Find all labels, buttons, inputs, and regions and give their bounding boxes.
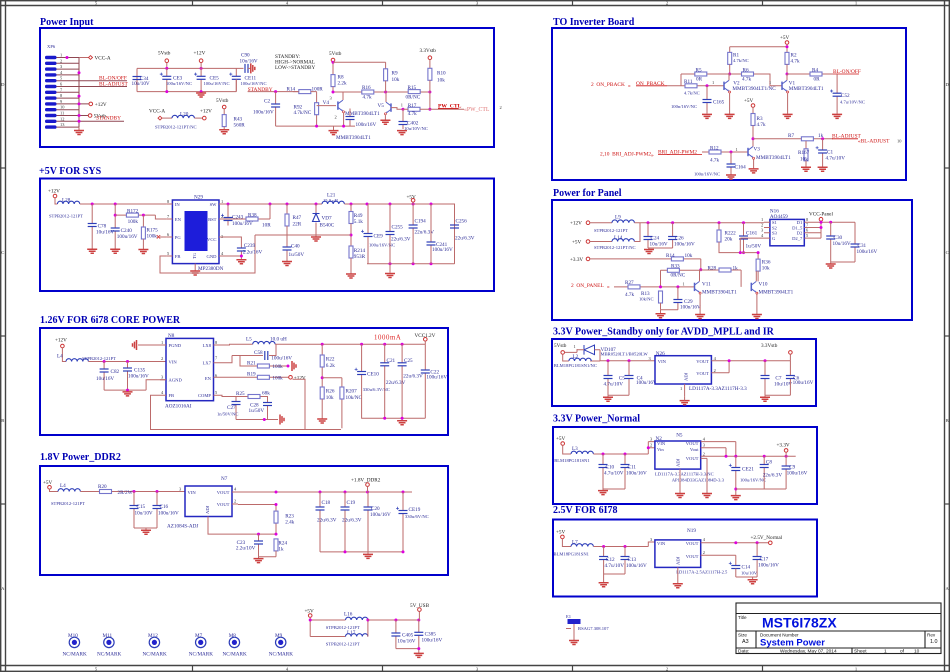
caps bottom rail + ground <box>362 418 426 420</box>
svg-text:LD1117A-3.3AZ1117H-3.3: LD1117A-3.3AZ1117H-3.3 <box>689 386 747 392</box>
svg-text:100k: 100k <box>272 375 283 381</box>
svg-text:EN: EN <box>205 376 212 381</box>
svg-text:2 ON_PANEL: 2 ON_PANEL <box>571 283 604 289</box>
svg-text:R19: R19 <box>247 372 256 378</box>
svg-text:VIN: VIN <box>169 359 178 364</box>
rail collector row <box>293 91 430 93</box>
resistor R21 <box>240 356 288 367</box>
caps bottom rail + ground <box>137 79 236 92</box>
ground C12/C13 <box>604 574 625 582</box>
svg-text:2R/2W: 2R/2W <box>118 490 133 496</box>
svg-text:3.3Vstb: 3.3Vstb <box>420 48 437 54</box>
svg-text:+3.3V: +3.3V <box>570 257 583 263</box>
svg-text:4.7u/10V: 4.7u/10V <box>605 563 625 569</box>
svg-text:N7: N7 <box>221 476 228 482</box>
svg-text:VOUT: VOUT <box>217 490 230 495</box>
capacitor C7 <box>764 361 766 395</box>
svg-text:1: 1 <box>884 649 887 655</box>
ground PGND (rotated) <box>138 344 160 346</box>
svg-text:4.7k: 4.7k <box>757 122 766 128</box>
svg-text:»: » <box>607 284 610 290</box>
resistor R7 <box>801 137 813 141</box>
svg-text:2: 2 <box>761 222 763 227</box>
svg-text:NC/MARK: NC/MARK <box>189 651 213 657</box>
svg-text:100u/16V: 100u/16V <box>253 110 274 116</box>
svg-text:V3: V3 <box>754 146 761 152</box>
ground C90 (rotated) <box>248 67 250 69</box>
svg-text:100u/16V: 100u/16V <box>422 638 443 644</box>
svg-text:4.7k: 4.7k <box>791 59 800 65</box>
ADJ grounds <box>680 458 707 493</box>
svg-text:Size: Size <box>738 633 747 638</box>
section box 1.26V <box>40 328 448 435</box>
svg-text:100k: 100k <box>147 234 158 240</box>
svg-text:+12V: +12V <box>570 221 582 227</box>
svg-text:R7: R7 <box>788 133 794 139</box>
svg-text:+5V: +5V <box>556 529 566 535</box>
svg-text:MP2380DN: MP2380DN <box>198 266 224 272</box>
svg-text:5.1k: 5.1k <box>354 219 363 225</box>
svg-text:100u/16V: 100u/16V <box>232 221 253 227</box>
svg-text:PG: PG <box>175 235 182 240</box>
svg-text:R6: R6 <box>743 68 749 74</box>
svg-text:ADJ: ADJ <box>205 505 210 514</box>
svg-text:C27: C27 <box>227 405 236 411</box>
transistor V4 <box>338 100 345 113</box>
svg-text:N19: N19 <box>687 528 696 534</box>
svg-text:C11: C11 <box>628 465 637 471</box>
svg-text:4.7k/NC: 4.7k/NC <box>684 91 700 96</box>
capacitor C402 <box>402 109 404 129</box>
svg-text:100n/16V: 100n/16V <box>356 122 377 128</box>
ground C30/C31 <box>831 262 855 264</box>
capacitor C26 <box>672 223 674 248</box>
svg-text:AOZ1016AI: AOZ1016AI <box>165 404 192 410</box>
svg-text:GND: GND <box>207 254 218 259</box>
ground C24/C26 <box>648 248 673 249</box>
svg-text:100u/16V/NC: 100u/16V/NC <box>204 81 230 86</box>
ground output rail <box>389 264 391 273</box>
svg-text:3.3V Power_Standby only for AV: 3.3V Power_Standby only for AVDD_MPLL an… <box>553 327 775 338</box>
capacitor C161 <box>743 223 745 253</box>
capacitor C40 <box>286 226 288 261</box>
svg-text:0R: 0R <box>696 77 703 83</box>
resistor R14 (panel) <box>671 257 683 261</box>
svg-text:R11: R11 <box>684 79 693 85</box>
svg-text:3.3V Power_Normal: 3.3V Power_Normal <box>553 414 640 425</box>
VOUT wires <box>711 361 790 373</box>
svg-text:1k: 1k <box>278 546 284 552</box>
svg-text:R167: R167 <box>798 150 810 156</box>
resistor R4 <box>787 73 833 75</box>
svg-text:+5V: +5V <box>744 98 754 104</box>
svg-text:VOUT: VOUT <box>686 456 699 461</box>
svg-text:5Vstb: 5Vstb <box>329 51 342 57</box>
svg-text:R207: R207 <box>346 389 358 395</box>
svg-text:C13: C13 <box>628 557 637 563</box>
svg-text:100k: 100k <box>272 364 283 370</box>
svg-text:EN: EN <box>175 217 182 222</box>
svg-text:VOUT: VOUT <box>696 359 709 364</box>
svg-text:VOUT: VOUT <box>696 371 709 376</box>
svg-text:ADJ: ADJ <box>676 458 681 467</box>
resistor R26 <box>320 387 324 399</box>
svg-text:C255: C255 <box>392 225 404 231</box>
svg-text:100n/16V/NC: 100n/16V/NC <box>694 172 720 177</box>
svg-text:+1.8V_DDR2: +1.8V_DDR2 <box>351 478 381 484</box>
svg-text:11: 11 <box>60 111 64 116</box>
svg-text:5Vstb: 5Vstb <box>554 343 567 349</box>
svg-text:10k: 10k <box>685 253 693 259</box>
svg-text:VIN: VIN <box>657 541 666 546</box>
svg-text:R33: R33 <box>671 264 680 270</box>
svg-text:LX8: LX8 <box>203 343 212 348</box>
section box 3.3V standby <box>552 339 816 406</box>
svg-text:4.7k: 4.7k <box>408 111 417 117</box>
svg-text:R47: R47 <box>293 215 302 221</box>
capacitor near V5 base <box>349 109 351 127</box>
svg-text:Vout: Vout <box>690 447 699 452</box>
resistor R5 <box>681 74 730 86</box>
svg-text:100u/16V: 100u/16V <box>857 249 878 255</box>
wire LX8 to L5 <box>220 344 253 363</box>
svg-text:100u/16V: 100u/16V <box>128 374 149 380</box>
svg-text:C2: C2 <box>264 98 270 104</box>
resistor R19 <box>220 376 289 378</box>
svg-text:VIN: VIN <box>658 359 667 364</box>
svg-text:4.7u/10V/NC: 4.7u/10V/NC <box>840 100 865 105</box>
capacitor C165 <box>706 84 709 87</box>
svg-text:»: » <box>651 153 654 159</box>
svg-text:10k/NC: 10k/NC <box>639 297 654 302</box>
svg-text:RSAG7.308.107: RSAG7.308.107 <box>578 626 609 631</box>
terminal +12V pin9 <box>89 102 93 106</box>
svg-text:2.2u/16V: 2.2u/16V <box>243 250 263 256</box>
output rail <box>344 204 454 264</box>
svg-text:100u/16V: 100u/16V <box>787 471 808 477</box>
svg-text:L16: L16 <box>344 612 353 618</box>
capacitor C239 <box>225 237 241 260</box>
rail to VIN <box>593 542 654 547</box>
svg-text:10: 10 <box>914 649 920 655</box>
svg-text:R22: R22 <box>326 357 335 363</box>
capacitor C30 <box>830 222 832 262</box>
svg-text:0R: 0R <box>814 77 821 83</box>
svg-text:STPB2012-121PT/NC: STPB2012-121PT/NC <box>594 245 636 250</box>
svg-text:C18: C18 <box>322 500 331 506</box>
capacitor C82 <box>103 362 105 391</box>
rail to VIN <box>593 442 654 454</box>
svg-text:AZ1084S-ADJ: AZ1084S-ADJ <box>167 524 198 530</box>
capacitor C8 <box>763 456 765 489</box>
VOUT wires <box>701 442 796 457</box>
svg-text:100u/16V: 100u/16V <box>626 563 647 569</box>
gate wire to R36 <box>740 238 764 259</box>
svg-text:V5: V5 <box>378 103 385 109</box>
resistor R20 <box>80 491 185 493</box>
svg-text:2.2u/10V: 2.2u/10V <box>236 545 256 551</box>
resistor R24 <box>274 539 278 551</box>
wire 5Vstb over to R9 <box>333 62 386 69</box>
svg-text:Date:: Date: <box>738 649 749 655</box>
svg-text:R5: R5 <box>696 68 702 74</box>
ground bottom rail <box>333 126 335 130</box>
svg-text:CE21: CE21 <box>742 466 754 472</box>
svg-text:VIN: VIN <box>657 441 666 446</box>
svg-text:VOUT: VOUT <box>686 554 699 559</box>
ground C7/C6 <box>765 395 790 397</box>
svg-text:R38: R38 <box>248 213 257 219</box>
svg-text:D2: D2 <box>797 231 803 236</box>
svg-text:C8: C8 <box>766 460 772 466</box>
capacitor CE9 <box>367 204 369 264</box>
svg-text:+12V: +12V <box>48 189 60 195</box>
capacitor C164 <box>730 151 733 154</box>
capacitor C243 (bootstrap) <box>227 204 229 226</box>
capacitor C13 <box>624 547 626 575</box>
svg-text:TG: TG <box>192 252 197 259</box>
svg-text:10u/16V: 10u/16V <box>96 229 114 235</box>
svg-text:B540C: B540C <box>320 223 335 229</box>
svg-text:MMBT3904LT1: MMBT3904LT1 <box>789 86 824 92</box>
svg-text:VCC-Panel: VCC-Panel <box>809 211 833 217</box>
section box Power Input <box>40 28 494 147</box>
terminal VCC-A <box>89 56 93 60</box>
wire V4 collector <box>342 92 345 126</box>
svg-text:BL-ADJUST: BL-ADJUST <box>99 81 128 87</box>
+5V rail <box>730 47 787 53</box>
capacitor C11 <box>624 454 626 489</box>
svg-text:+12V: +12V <box>55 338 67 344</box>
transistor V5 (mirrored) <box>384 102 391 115</box>
svg-text:VCC-A: VCC-A <box>95 56 111 62</box>
svg-text:1: 1 <box>683 281 685 286</box>
capacitor C25 <box>401 344 403 418</box>
svg-text:1: 1 <box>769 80 771 85</box>
wire to R7 row <box>753 138 833 140</box>
rail to IC <box>80 203 167 205</box>
capacitor C385 <box>418 620 420 649</box>
svg-text:MST6I78ZX: MST6I78ZX <box>762 615 837 631</box>
ground C23/R24 <box>259 557 277 559</box>
svg-text:Wednesday, May 07, 2014: Wednesday, May 07, 2014 <box>780 649 837 655</box>
svg-text:NC/MARK: NC/MARK <box>269 651 293 657</box>
section box TO Inverter Board <box>552 28 906 180</box>
section box 2.5V <box>553 520 817 597</box>
svg-text:C10: C10 <box>606 465 615 471</box>
svg-text:1: 1 <box>401 103 403 108</box>
svg-text:4.7k: 4.7k <box>363 95 372 101</box>
resistor R14 <box>299 90 311 94</box>
svg-text:COMP: COMP <box>198 393 211 398</box>
svg-text:100k: 100k <box>128 219 139 225</box>
svg-text:10u/10V/NC: 10u/10V/NC <box>404 126 428 131</box>
svg-text:22u/6.3V: 22u/6.3V <box>455 236 475 242</box>
svg-text:MMBT3904LT1: MMBT3904LT1 <box>336 135 371 141</box>
svg-text:4.7u/10V: 4.7u/10V <box>604 471 624 477</box>
capacitor C16 <box>156 492 158 529</box>
resistor R172 <box>114 214 117 217</box>
svg-text:1: 1 <box>736 147 738 152</box>
svg-text:R14: R14 <box>666 253 675 259</box>
svg-text:5Vstb: 5Vstb <box>216 98 229 104</box>
svg-text:LD1117A-2.5AZ1117H-2.5: LD1117A-2.5AZ1117H-2.5 <box>676 569 728 574</box>
svg-text:R4: R4 <box>812 68 818 74</box>
svg-text:S2: S2 <box>772 225 778 230</box>
svg-text:Vin: Vin <box>657 447 664 452</box>
svg-text:2: 2 <box>161 356 163 361</box>
svg-text:1: 1 <box>680 386 682 391</box>
svg-text:15.0 uH: 15.0 uH <box>323 198 338 203</box>
svg-text:0R/NC: 0R/NC <box>406 95 421 101</box>
svg-text:BLM18PG181SN1/NC: BLM18PG181SN1/NC <box>554 363 597 368</box>
svg-text:100u/16V/NC: 100u/16V/NC <box>241 81 267 86</box>
svg-text:D1_5: D1_5 <box>792 225 803 230</box>
svg-text:22u/6.3V: 22u/6.3V <box>391 236 411 242</box>
svg-text:2: 2 <box>703 550 705 555</box>
svg-text:22u/6.3V: 22u/6.3V <box>763 473 783 479</box>
resistor R214 <box>349 246 353 258</box>
svg-text:100u/16V: 100u/16V <box>674 241 695 247</box>
VOUT2 wire + resistor R23 <box>238 505 276 535</box>
svg-text:10u/16V: 10u/16V <box>240 58 258 64</box>
svg-text:STPB2012-121PT: STPB2012-121PT <box>49 214 83 219</box>
ground C82/C135 + AGND <box>104 380 166 392</box>
capacitor C255 <box>389 204 391 264</box>
svg-text:C19: C19 <box>347 500 356 506</box>
svg-text:10k: 10k <box>800 156 808 162</box>
resistor R33 <box>661 270 701 287</box>
svg-text:MMBT3904LT1/NC: MMBT3904LT1/NC <box>732 86 776 92</box>
svg-text:+5V: +5V <box>43 480 53 486</box>
PG no-connect <box>160 236 166 238</box>
svg-text:V11: V11 <box>702 282 711 288</box>
svg-text:10u/10V: 10u/10V <box>741 571 758 576</box>
svg-text:L5: L5 <box>246 337 252 343</box>
svg-text:+3.3V: +3.3V <box>777 442 790 448</box>
capacitor C4 <box>628 361 630 395</box>
svg-text:10u/16V: 10u/16V <box>650 241 668 247</box>
svg-text:1u/50V: 1u/50V <box>746 244 762 250</box>
capacitor C18 <box>319 492 321 552</box>
svg-text:C15: C15 <box>137 504 146 510</box>
svg-text:1: 1 <box>60 53 62 58</box>
svg-text:C165: C165 <box>713 99 725 105</box>
svg-text:2: 2 <box>714 368 716 373</box>
svg-text:VOUT: VOUT <box>217 502 230 507</box>
svg-text:4.7k: 4.7k <box>742 77 751 83</box>
svg-text:R9: R9 <box>392 71 398 77</box>
svg-text:VD7: VD7 <box>322 216 332 222</box>
resistor R38 to BST <box>224 204 270 219</box>
svg-text:NC/MARK: NC/MARK <box>63 651 87 657</box>
svg-text:22u/6.3V: 22u/6.3V <box>386 380 406 386</box>
FB loop wire <box>151 379 342 429</box>
svg-text:4.7k/NC: 4.7k/NC <box>294 110 312 116</box>
capacitor C14 <box>729 562 741 569</box>
svg-text:330u/6.3V/NC: 330u/6.3V/NC <box>363 387 390 392</box>
svg-text:1u/50V: 1u/50V <box>249 408 265 414</box>
svg-text:L4: L4 <box>57 354 63 360</box>
svg-text:VCC: VCC <box>207 237 216 242</box>
svg-text:+12V: +12V <box>95 102 107 108</box>
svg-text:2: 2 <box>335 115 337 120</box>
svg-text:100n/16V: 100n/16V <box>680 304 701 310</box>
svg-text:B: B <box>1 418 4 423</box>
ground C10/C11 <box>603 489 625 490</box>
svg-text:+5V: +5V <box>572 240 582 246</box>
capacitor C135 <box>127 362 129 391</box>
capacitor C194 <box>412 204 414 264</box>
ADJ ground <box>677 567 679 583</box>
svg-text:1u/50V: 1u/50V <box>289 252 305 258</box>
svg-text:A3: A3 <box>742 639 749 645</box>
svg-text:Sheet: Sheet <box>854 649 867 655</box>
svg-text:1k: 1k <box>733 266 739 272</box>
svg-text:AGND: AGND <box>169 378 183 383</box>
svg-text:«BL-ADJUST: «BL-ADJUST <box>858 139 890 145</box>
ground C5/C4 <box>608 395 629 397</box>
svg-text:MMBT3904LT1: MMBT3904LT1 <box>702 290 737 296</box>
transistor V2 <box>724 80 731 93</box>
svg-text:22u/6.3V: 22u/6.3V <box>317 517 337 523</box>
wire STANDBY to R14 <box>248 91 299 93</box>
svg-text:1.0: 1.0 <box>930 639 938 645</box>
svg-text:C25: C25 <box>404 358 413 364</box>
bottom rail <box>276 125 355 127</box>
svg-text:4.7u/10V: 4.7u/10V <box>826 156 846 162</box>
diode VD107 <box>584 345 595 355</box>
resistor R175 <box>142 215 144 227</box>
svg-text:Power Input: Power Input <box>40 17 94 28</box>
resistor R12 <box>702 151 748 153</box>
svg-text:FB: FB <box>169 393 175 398</box>
svg-text:0R/NC: 0R/NC <box>671 272 686 278</box>
capacitor CE3 <box>166 68 168 91</box>
svg-text:V4: V4 <box>323 100 330 106</box>
svg-text:C: C <box>946 250 949 255</box>
resistor R222 <box>718 223 720 230</box>
VOUT wires <box>701 543 769 566</box>
resistor R22 <box>321 344 323 387</box>
resistor R167 <box>805 141 807 149</box>
svg-text:68k: 68k <box>262 391 270 397</box>
svg-text:4.7u/10V: 4.7u/10V <box>604 381 624 387</box>
SW rail <box>225 203 322 205</box>
ground C15/C16 <box>134 528 157 530</box>
resistor R11 <box>667 85 724 87</box>
svg-text:STPB2012-121PT: STPB2012-121PT <box>326 641 360 646</box>
capacitor C20 <box>367 492 369 552</box>
capacitor C34 <box>133 77 142 80</box>
svg-text:C9: C9 <box>789 464 795 470</box>
svg-text:STPB2012-121PT: STPB2012-121PT <box>51 501 85 506</box>
svg-text:BLM18PG181SN1: BLM18PG181SN1 <box>554 458 590 463</box>
resistor R13 <box>659 291 663 303</box>
svg-text:C20: C20 <box>371 506 380 512</box>
capacitor C240 <box>114 204 116 249</box>
svg-text:R16: R16 <box>362 85 371 91</box>
svg-text:MMBT3904LT1: MMBT3904LT1 <box>756 155 791 161</box>
capacitor CE11 <box>235 68 237 91</box>
svg-text:R28: R28 <box>708 266 717 272</box>
svg-text:1.26V FOR 6i78 CORE POWER: 1.26V FOR 6i78 CORE POWER <box>40 315 181 326</box>
transistor V11 <box>695 281 702 294</box>
transistor V3 <box>748 147 755 160</box>
svg-text:22R: 22R <box>293 222 302 228</box>
resistor R3 <box>751 114 755 126</box>
svg-text:10u/10V: 10u/10V <box>774 381 792 387</box>
